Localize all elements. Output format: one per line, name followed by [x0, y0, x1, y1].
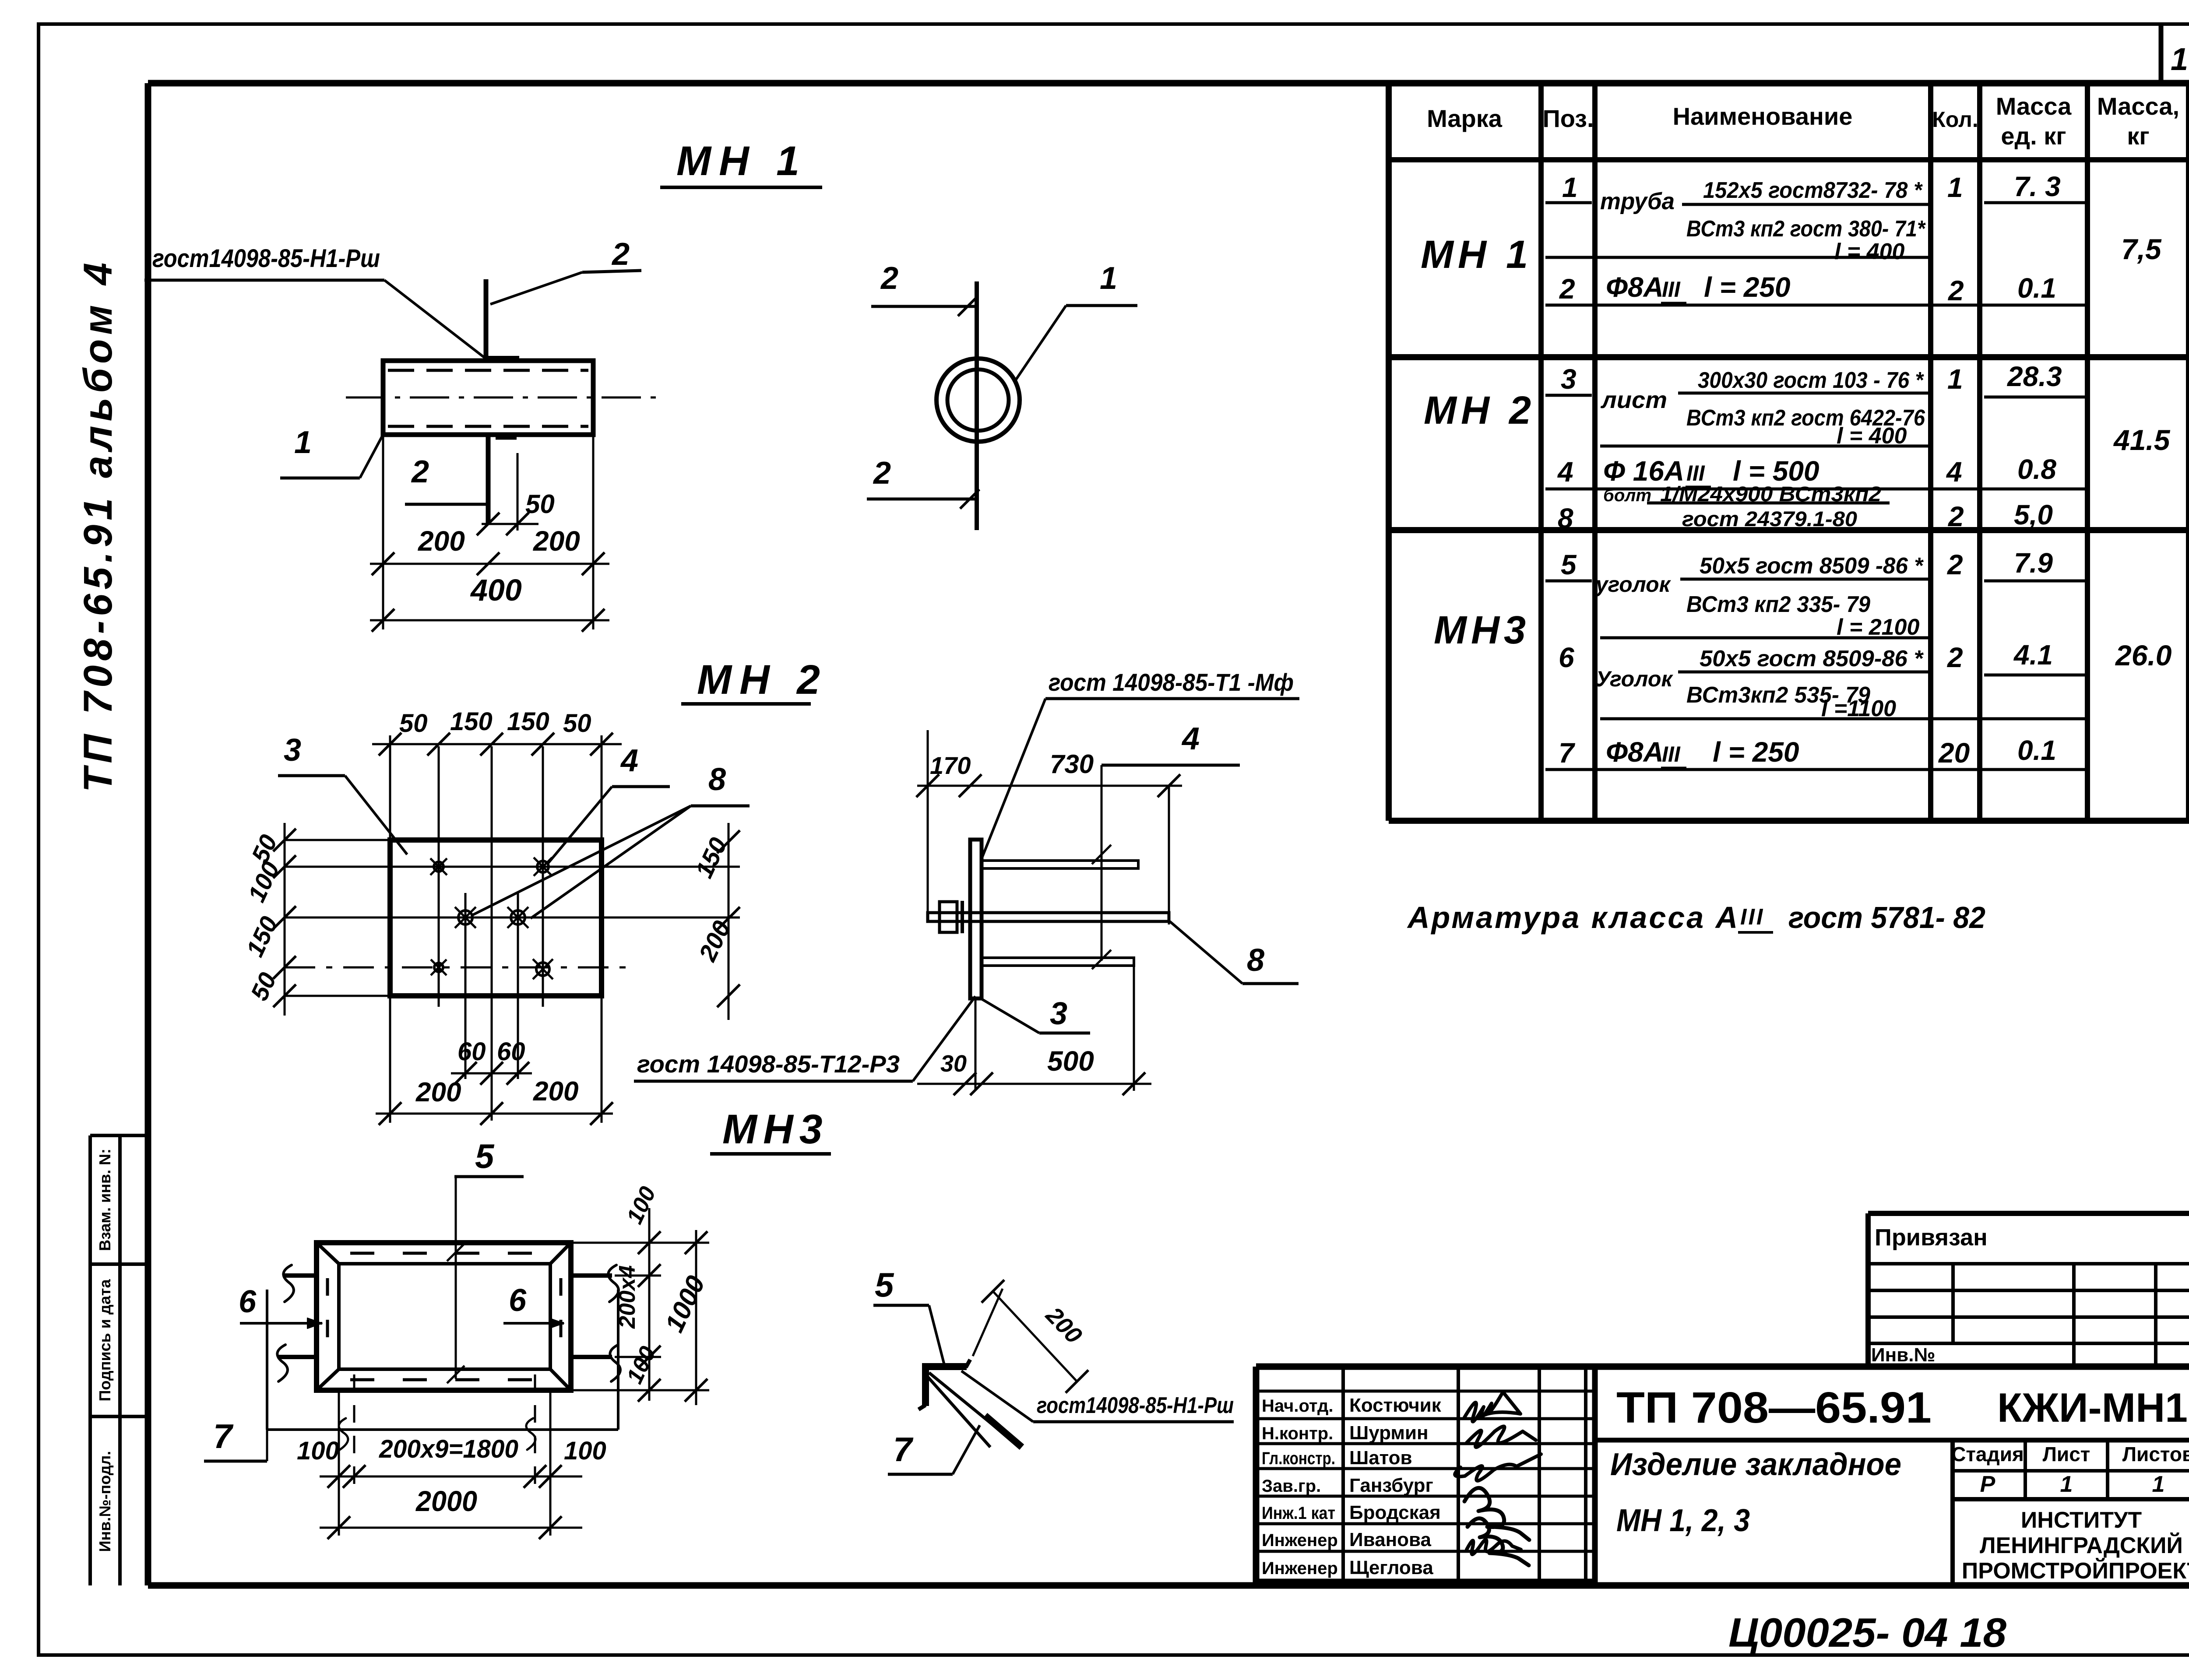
callout 7 MH3 [204, 1417, 267, 1461]
svg-text:лист: лист [1600, 387, 1667, 413]
svg-text:Инв.№-подл.: Инв.№-подл. [96, 1451, 114, 1552]
svg-text:400: 400 [470, 573, 522, 607]
svg-text:l = 2100: l = 2100 [1837, 615, 1919, 640]
svg-text:ед. кг: ед. кг [2001, 122, 2066, 150]
MH2 right dimension 150 200 [690, 823, 740, 1020]
callout 2 lower [405, 454, 487, 504]
svg-text:41.5: 41.5 [2113, 424, 2171, 456]
label gost 14098-85-T12-R3 with leader [634, 996, 975, 1081]
MH3 left anchor rods pos6 with break [277, 1265, 317, 1381]
MH2 holes [430, 858, 553, 979]
svg-text:4: 4 [1946, 456, 1962, 488]
spec MH2 pos3 texts [1561, 361, 2062, 449]
section mark 2 top [871, 261, 977, 316]
callout 5 MH3 [447, 1137, 524, 1383]
svg-text:2: 2 [873, 456, 891, 491]
svg-text:Взам. инв. N:: Взам. инв. N: [96, 1149, 114, 1251]
svg-text:2000: 2000 [415, 1485, 477, 1517]
svg-text:гост14098-85-Н1-Рш: гост14098-85-Н1-Рш [152, 244, 380, 273]
svg-text:Привязан: Привязан [1875, 1224, 1988, 1251]
institute name [1962, 1508, 2189, 1584]
svg-text:2: 2 [1948, 501, 1964, 532]
svg-text:200: 200 [533, 525, 580, 557]
svg-text:труба: труба [1600, 188, 1675, 214]
MH2 side top rod pos4 [982, 861, 1138, 868]
svg-text:Шатов: Шатов [1349, 1447, 1412, 1469]
svg-text:4: 4 [1557, 456, 1573, 488]
svg-text:1: 1 [1947, 172, 1963, 203]
svg-text:5: 5 [875, 1265, 894, 1304]
svg-text:50х5 гост 8509-86 *: 50х5 гост 8509-86 * [1700, 646, 1924, 671]
svg-text:Ганзбург: Ганзбург [1349, 1475, 1433, 1496]
MH3 right anchor rods pos6 with break [571, 1265, 620, 1381]
svg-text:Шурмин: Шурмин [1349, 1422, 1429, 1444]
title MH3 [710, 1106, 831, 1154]
MH1 top rod pos2 [485, 279, 519, 361]
svg-text:l = 400: l = 400 [1834, 239, 1905, 264]
detail angle pos5 [919, 1360, 970, 1409]
MH1 bottom rod pos2 [488, 435, 517, 524]
svg-text:Щеглова: Щеглова [1349, 1557, 1433, 1578]
MH2 dimension 60 60 [451, 1037, 532, 1085]
spec rows MH3 inner lines [1545, 579, 2087, 770]
svg-text:Кол.: Кол. [1932, 107, 1978, 132]
svg-text:7: 7 [213, 1417, 234, 1455]
label gost 14098-85-T1-Mf with leader [982, 668, 1299, 859]
svg-text:Ф8А: Ф8А [1606, 736, 1664, 768]
callout 4 MH2 [548, 743, 670, 863]
MH3 frame outer rect [317, 1243, 571, 1390]
svg-text:МН3: МН3 [1434, 608, 1530, 652]
svg-text:28.3: 28.3 [2007, 361, 2062, 392]
section mark 2 bottom [867, 456, 979, 509]
document number TP 708-65.91 KZHI-MN1 [1616, 1383, 2188, 1432]
svg-text:Инженер: Инженер [1262, 1559, 1338, 1578]
svg-text:ТП 708—65.91: ТП 708—65.91 [1616, 1383, 1932, 1432]
svg-text:Иванова: Иванова [1349, 1529, 1431, 1550]
svg-text:3: 3 [284, 733, 301, 768]
svg-text:Зав.гр.: Зав.гр. [1262, 1476, 1321, 1496]
svg-text:III: III [1686, 461, 1705, 485]
svg-text:ЛЕНИНГРАДСКИЙ: ЛЕНИНГРАДСКИЙ [1980, 1532, 2183, 1558]
title MH2 [681, 657, 828, 704]
svg-text:Бродская: Бродская [1349, 1502, 1441, 1523]
spec table header texts [1427, 92, 2179, 150]
MH2 dimension 200 200 bottom [376, 998, 613, 1125]
svg-text:2: 2 [1947, 549, 1963, 580]
callout 8 side view [1170, 921, 1299, 984]
svg-text:1: 1 [294, 425, 312, 460]
signatures scribbles [1455, 1392, 1541, 1565]
callout 6 left [239, 1284, 322, 1329]
svg-text:Ц00025- 04 18: Ц00025- 04 18 [1728, 1610, 2007, 1655]
svg-text:МН 2: МН 2 [697, 657, 828, 703]
MH2 side bolt pos8 [928, 901, 1169, 933]
svg-text:2: 2 [880, 261, 898, 296]
callout 3 side view [981, 996, 1090, 1033]
spec MH1 pos1 texts [1562, 171, 2061, 264]
svg-text:8: 8 [708, 762, 726, 797]
svg-text:гост 5781- 82: гост 5781- 82 [1788, 900, 1985, 935]
svg-text:6: 6 [509, 1283, 527, 1318]
svg-text:150: 150 [507, 707, 549, 736]
spec table outer and columns [1389, 83, 2189, 821]
svg-text:8: 8 [1558, 503, 1573, 534]
svg-text:1: 1 [2060, 1472, 2073, 1497]
svg-text:ВСт3 кп2 335- 79: ВСт3 кп2 335- 79 [1686, 592, 1870, 617]
svg-text:Инв.№: Инв.№ [1871, 1344, 1936, 1366]
svg-text:50: 50 [563, 709, 591, 738]
svg-text:КЖИ-МН1: КЖИ-МН1 [1997, 1385, 2188, 1430]
svg-text:Ф 16А: Ф 16А [1603, 455, 1684, 487]
svg-text:200: 200 [418, 525, 465, 557]
svg-text:Н.контр.: Н.контр. [1262, 1424, 1333, 1443]
svg-text:8: 8 [1247, 943, 1264, 978]
svg-text:2: 2 [411, 454, 429, 489]
title MH1 [660, 138, 822, 187]
MH3 bottom dimension 100 1800 100 [297, 1374, 606, 1536]
svg-text:кг: кг [2127, 122, 2149, 150]
svg-text:III: III [1740, 904, 1764, 930]
MH1 pipe centerline [346, 397, 662, 399]
svg-text:150: 150 [450, 707, 493, 736]
svg-text:Ф8А: Ф8А [1606, 271, 1664, 303]
MH3 element break outline [267, 1290, 618, 1450]
spec MH2 pos8 texts [1558, 483, 2053, 534]
svg-text:МН 1: МН 1 [676, 138, 807, 184]
svg-text:Лист: Лист [2043, 1443, 2090, 1466]
callout 4 side view [1092, 721, 1240, 969]
MH1 section pipe circle [936, 358, 1020, 442]
svg-text:Масса: Масса [1996, 92, 2072, 120]
detail rod pos7 weld [926, 1373, 1022, 1447]
detail callout 5 [873, 1265, 945, 1367]
svg-text:ТП 708-65.91 альбом 4: ТП 708-65.91 альбом 4 [76, 258, 120, 792]
svg-text:l =1100: l =1100 [1821, 696, 1896, 721]
svg-text:1: 1 [1947, 363, 1963, 395]
svg-text:7: 7 [1559, 737, 1576, 769]
svg-text:III: III [1662, 742, 1681, 766]
svg-text:Марка: Марка [1427, 105, 1503, 132]
spec rows MH2 inner lines [1545, 393, 2087, 503]
svg-text:гост 14098-85-Т12-Р3: гост 14098-85-Т12-Р3 [637, 1050, 900, 1078]
svg-text:5: 5 [475, 1137, 495, 1175]
svg-text:7. 3: 7. 3 [2014, 171, 2061, 202]
svg-text:Листов: Листов [2122, 1443, 2189, 1466]
svg-text:0.8: 0.8 [2017, 453, 2056, 485]
svg-text:гост 24379.1-80: гост 24379.1-80 [1682, 508, 1857, 531]
spec MH3 pos6 texts [1559, 639, 2053, 721]
MH1 pipe body [383, 361, 593, 435]
svg-text:гост14098-85-Н1-Рш: гост14098-85-Н1-Рш [1037, 1393, 1234, 1418]
svg-text:300х30 гост 103 - 76 *: 300х30 гост 103 - 76 * [1698, 368, 1925, 393]
svg-text:2: 2 [1947, 642, 1963, 673]
spec MH2 pos4 texts [1557, 453, 2056, 488]
svg-text:6: 6 [239, 1284, 257, 1319]
MH2 side dimension 170 730 [916, 730, 1182, 924]
svg-text:III: III [1662, 277, 1681, 302]
svg-text:500: 500 [1047, 1045, 1094, 1077]
dimension 50 MH1 [477, 453, 555, 535]
svg-text:3: 3 [1561, 363, 1577, 395]
svg-text:60: 60 [497, 1037, 525, 1066]
dimension 200 200 MH1 [370, 436, 609, 629]
MH2 top dimension 50 150 150 50 [372, 707, 622, 840]
svg-text:МН 1: МН 1 [1421, 233, 1532, 277]
svg-text:болт: болт [1603, 486, 1651, 505]
svg-text:50: 50 [399, 709, 428, 738]
svg-text:2: 2 [1948, 275, 1964, 306]
svg-text:l = 400: l = 400 [1837, 423, 1907, 449]
svg-text:Стадия: Стадия [1951, 1443, 2024, 1466]
svg-text:50х5 гост 8509 -86 *: 50х5 гост 8509 -86 * [1700, 553, 1924, 579]
MH2 horizontal axis lines [285, 867, 740, 967]
MH3 right dimension 1000 [659, 1230, 711, 1405]
svg-text:7,5: 7,5 [2121, 233, 2162, 265]
MH2 side plate pos3 [970, 840, 982, 998]
svg-text:2: 2 [611, 237, 630, 272]
callout 8 MH2 [473, 762, 750, 918]
svg-text:3: 3 [1050, 996, 1067, 1031]
svg-text:МН 1, 2, 3: МН 1, 2, 3 [1616, 1503, 1750, 1538]
svg-text:Костючик: Костючик [1349, 1395, 1442, 1416]
svg-text:ПРОМСТРОЙПРОЕКТ: ПРОМСТРОЙПРОЕКТ [1962, 1558, 2189, 1584]
svg-text:50: 50 [525, 489, 555, 519]
privyazan box [1868, 1213, 2189, 1367]
svg-text:МН 2: МН 2 [1424, 389, 1535, 432]
callout 3 MH2 [278, 733, 407, 854]
svg-text:170: 170 [930, 752, 971, 779]
svg-text:Поз.: Поз. [1542, 105, 1594, 132]
svg-text:ВСт3 кп2 гост 380- 71*: ВСт3 кп2 гост 380- 71* [1686, 216, 1926, 242]
svg-text:152х5 гост8732- 78 *: 152х5 гост8732- 78 * [1703, 178, 1923, 203]
svg-text:Подпись и дата: Подпись и дата [96, 1279, 114, 1402]
svg-text:0.1: 0.1 [2017, 272, 2056, 304]
svg-text:5,0: 5,0 [2014, 499, 2053, 531]
svg-text:Изделие закладное: Изделие закладное [1610, 1447, 1901, 1482]
svg-text:5: 5 [1561, 549, 1577, 580]
svg-text:4.1: 4.1 [2013, 639, 2053, 671]
svg-text:Нач.отд.: Нач.отд. [1262, 1396, 1333, 1416]
svg-text:200х9=1800: 200х9=1800 [379, 1435, 518, 1463]
MH2 side plate extension line [975, 998, 977, 1091]
MH2 side bottom rod pos4 [982, 958, 1134, 966]
svg-text:2: 2 [1559, 273, 1575, 305]
svg-text:Масса,: Масса, [2097, 92, 2179, 120]
svg-text:Р: Р [1980, 1472, 1995, 1497]
svg-text:1: 1 [1562, 172, 1578, 203]
svg-text:6: 6 [1559, 642, 1574, 673]
left margin strip boxes [90, 1135, 151, 1585]
MH2 plate plan [390, 840, 602, 996]
MH2 side dimension 30 500 [917, 967, 1151, 1095]
svg-text:100: 100 [297, 1437, 339, 1465]
title block staff grid [1256, 1367, 1595, 1581]
callout 1 section [1014, 261, 1137, 383]
svg-text:Гл.констр.: Гл.констр. [1262, 1449, 1335, 1468]
svg-text:Наименование: Наименование [1673, 102, 1853, 130]
svg-text:уголок: уголок [1594, 572, 1672, 597]
svg-text:30: 30 [940, 1051, 967, 1077]
svg-text:Инженер: Инженер [1262, 1531, 1338, 1550]
svg-text:МН3: МН3 [722, 1106, 829, 1153]
callout 6 right [503, 1283, 564, 1329]
sheet number box 17 [2161, 25, 2189, 83]
svg-text:l = 250: l = 250 [1704, 271, 1791, 303]
detail callout 7 [888, 1425, 980, 1474]
svg-text:7.9: 7.9 [2014, 547, 2053, 579]
svg-text:гост 14098-85-Т1 -Мф: гост 14098-85-Т1 -Мф [1049, 668, 1294, 696]
svg-text:20: 20 [1938, 737, 1970, 769]
callout 2 upper [490, 237, 641, 304]
label gost 14098-85-N1-Rsh with leader [144, 244, 485, 358]
MH1 section rod line [975, 281, 979, 530]
svg-text:Инж.1 кат: Инж.1 кат [1262, 1504, 1335, 1523]
svg-text:Уголок: Уголок [1596, 667, 1674, 691]
MH3 frame mitre corners [317, 1243, 571, 1390]
spec rows MH1 inner lines [1545, 203, 2087, 305]
svg-text:1: 1 [1100, 261, 1117, 296]
MH3 frame weld dashes [327, 1253, 561, 1380]
MH2 left dimension 50 100 150 50 [241, 823, 390, 1016]
svg-text:4: 4 [620, 743, 638, 778]
MH3 right dimension chain 100 200x4 100 [574, 1183, 709, 1402]
svg-text:4: 4 [1181, 721, 1200, 756]
svg-text:1/М24х900 ВСт3кп2: 1/М24х900 ВСт3кп2 [1660, 483, 1881, 506]
svg-text:730: 730 [1050, 749, 1094, 779]
staff titles and names [1262, 1395, 1442, 1578]
subject Izdelie zakladnoe MN1,2,3 [1610, 1447, 1901, 1538]
MH3 bottom dimension 2000 [320, 1485, 582, 1539]
svg-text:200: 200 [415, 1077, 461, 1107]
spec MH1 pos2 texts [1559, 271, 2056, 306]
title block divider lines right part [1595, 1440, 2189, 1585]
detail label gost 14098-85-N1-Rsh [961, 1371, 1234, 1422]
svg-text:ИНСТИТУТ: ИНСТИТУТ [2021, 1508, 2142, 1533]
title block outline [1256, 1367, 2189, 1585]
svg-text:Арматура класса А: Арматура класса А [1407, 900, 1739, 935]
svg-text:200х4: 200х4 [615, 1265, 640, 1329]
svg-text:100: 100 [564, 1437, 606, 1465]
svg-text:1: 1 [2152, 1472, 2165, 1497]
svg-text:200: 200 [533, 1076, 578, 1107]
dimension 400 MH1 [370, 573, 609, 632]
MH3 frame inner rect [339, 1264, 550, 1369]
svg-text:7: 7 [893, 1430, 914, 1469]
svg-text:l = 250: l = 250 [1713, 736, 1799, 768]
svg-text:17: 17 [2171, 42, 2189, 77]
spec MH3 pos7 texts [1559, 735, 2056, 769]
svg-text:26.0: 26.0 [2115, 639, 2172, 671]
svg-text:0.1: 0.1 [2017, 735, 2056, 766]
spec MH3 pos5 texts [1561, 547, 2053, 640]
note armatura klassa AIII gost 5781-82 [1407, 900, 1985, 935]
svg-text:l = 500: l = 500 [1733, 455, 1819, 487]
stadia list listov header [1951, 1443, 2189, 1497]
callout 1 [280, 425, 384, 478]
detail dimension 200 [973, 1280, 1088, 1393]
MH2 vertical axis lines [439, 746, 543, 1121]
svg-text:60: 60 [458, 1037, 486, 1066]
